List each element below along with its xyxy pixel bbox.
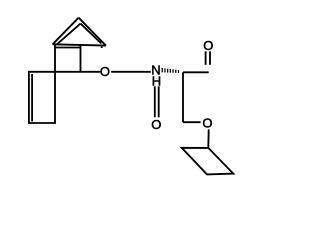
wire rectangle bottom edge: [28, 122, 56, 124]
wire rectangle inner double-bond line: [31, 74, 33, 121]
svg-text:H: H: [152, 74, 161, 89]
wire bond O to N: [111, 71, 151, 73]
wire bond stereocenter to carbonyl: [183, 71, 209, 73]
wire square right edge: [80, 45, 82, 72]
wire C=O double bond line b: [209, 51, 211, 65]
svg-text:O: O: [203, 38, 213, 53]
wire stub below right eave: [101, 46, 103, 48]
wire triangle outer left slant: [53, 18, 79, 45]
wire triangle base: [53, 44, 106, 45]
wire vertical left (square left + rectangle right): [54, 44, 56, 123]
wire parallelogram ring: [182, 148, 234, 175]
wire N=O double bond line b: [158, 86, 160, 117]
wire triangle outer right slant: [79, 18, 106, 46]
wire triangle inner left slant: [57, 24, 81, 45]
wire C=O double bond line a: [205, 51, 207, 65]
svg-text:O: O: [202, 115, 212, 130]
hashed wedge N to stereocenter: [162, 68, 180, 73]
svg-text:O: O: [100, 64, 110, 79]
wire rectangle outer left edge: [28, 71, 30, 124]
wire bond O3 down to ring: [207, 129, 209, 148]
wire triangle inner right slant: [81, 24, 102, 44]
wire square top edge: [54, 47, 80, 49]
svg-text:O: O: [151, 117, 161, 132]
wire vertical stereocenter down: [182, 72, 184, 122]
wire long horizontal chain line: [28, 71, 100, 73]
wire N=O double bond line a: [154, 86, 156, 117]
wire horizontal to ether O: [183, 121, 201, 123]
